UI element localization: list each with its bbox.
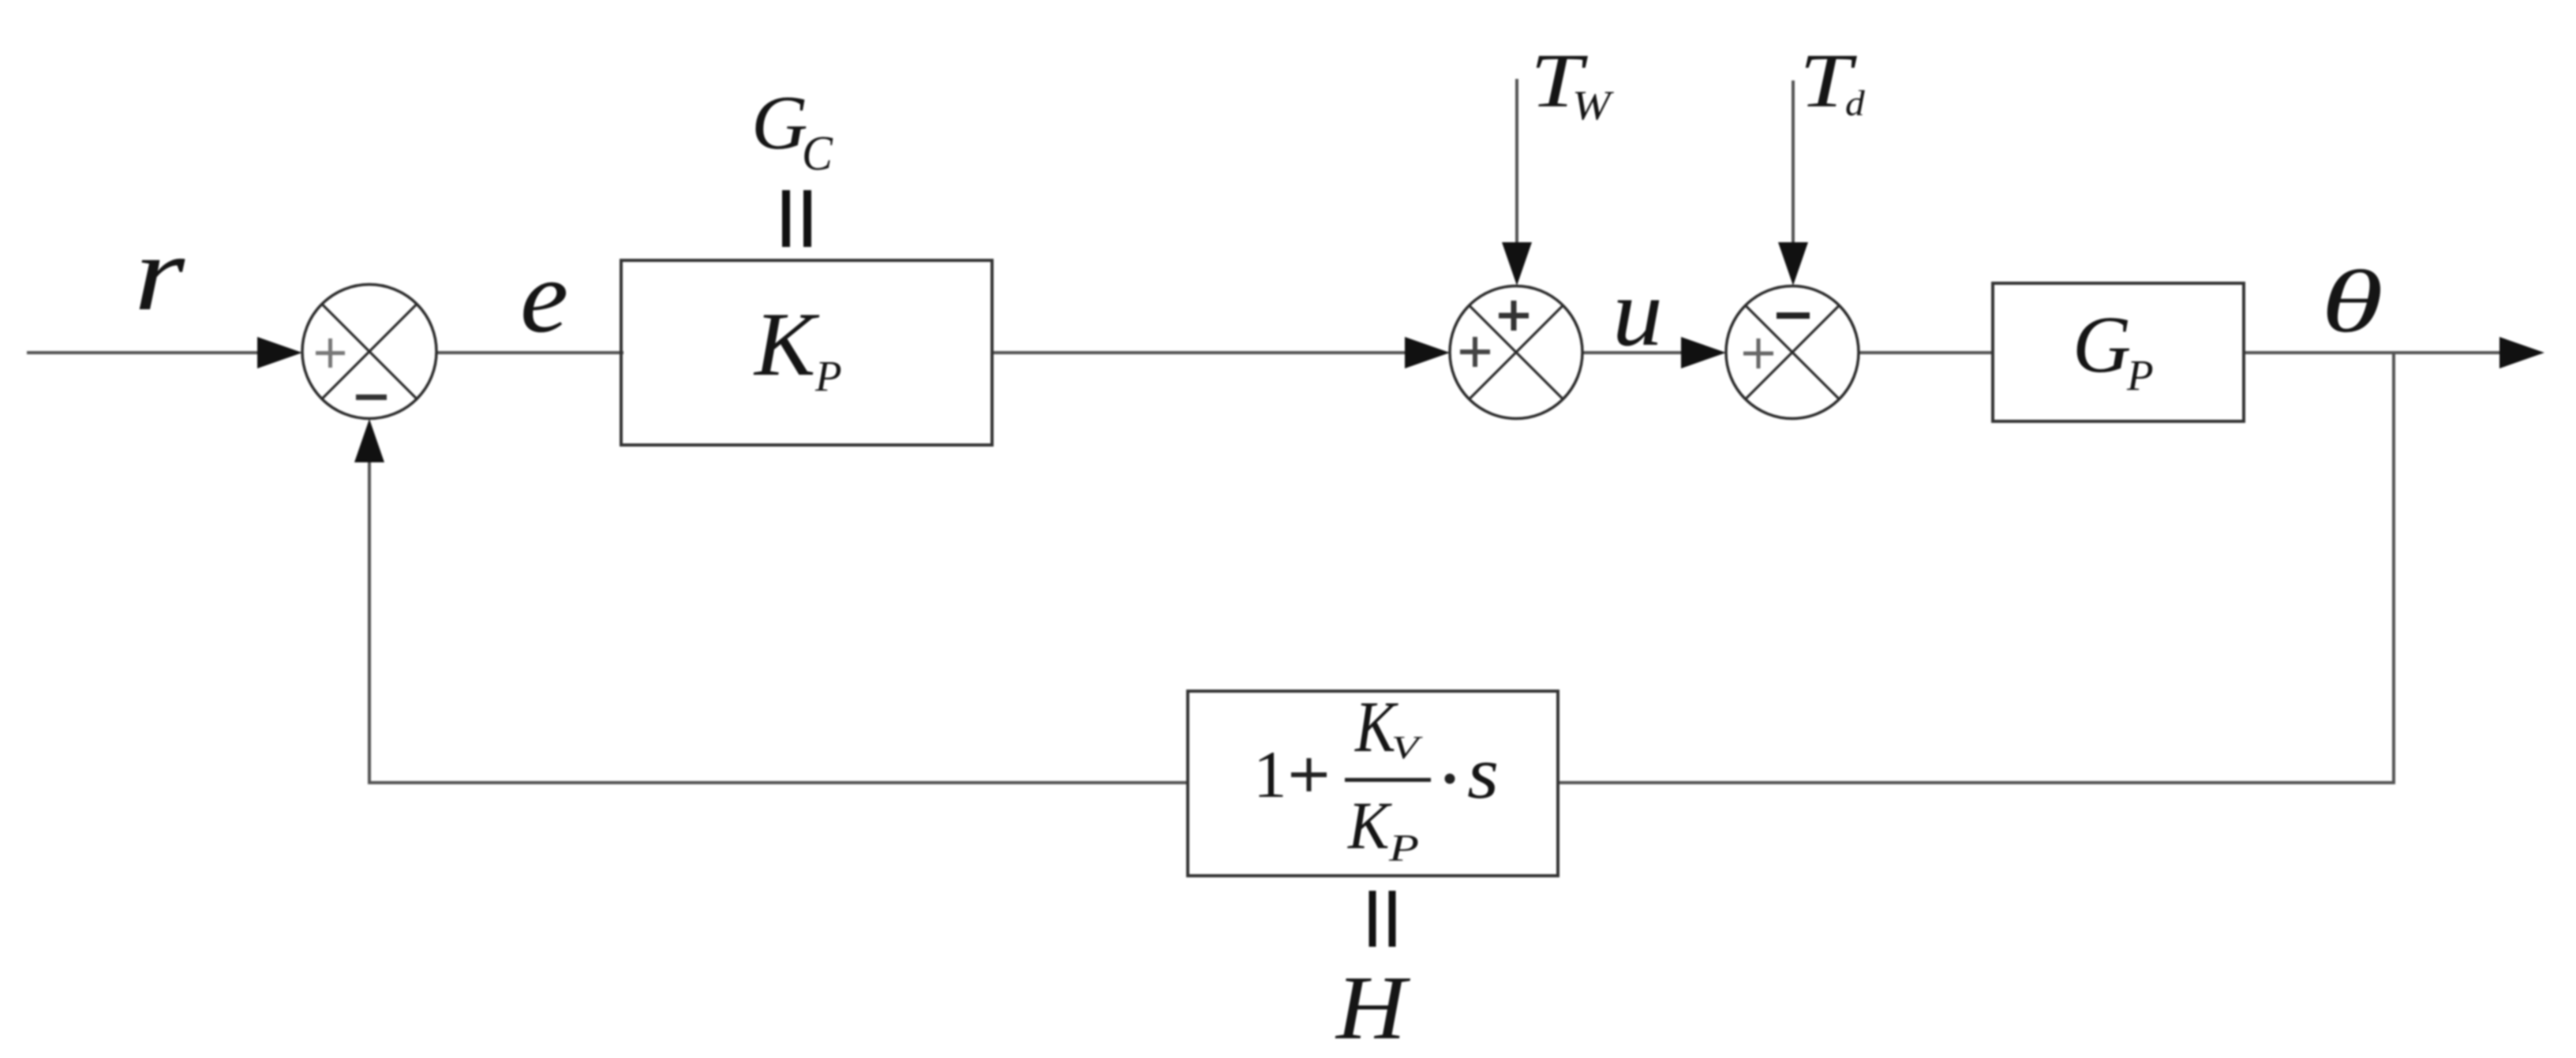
svg-text:G: G [2072,300,2131,390]
svg-text:G: G [751,81,808,166]
svg-text:W: W [1572,82,1614,129]
svg-text:θ: θ [2321,252,2383,351]
svg-text:P: P [1388,827,1419,869]
svg-text:C: C [802,126,833,181]
svg-text:P: P [814,352,842,400]
svg-text:K: K [753,294,820,395]
svg-text:1: 1 [1253,738,1287,812]
svg-text:u: u [1612,259,1663,366]
svg-text:P: P [2126,351,2154,399]
svg-text:K: K [1347,788,1392,863]
svg-text:H: H [1335,957,1411,1058]
svg-text:r: r [134,213,185,332]
svg-text:d: d [1845,84,1865,123]
svg-text:e: e [520,240,568,355]
svg-text:V: V [1391,729,1423,765]
svg-text:s: s [1467,732,1499,814]
